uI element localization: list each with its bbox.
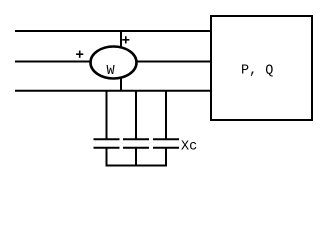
capacitor C3 [153,91,179,166]
svg-text:W: W [107,64,116,79]
wire line C (bottom phase) [15,90,211,92]
capacitor C1 [94,91,120,166]
bus wire joining capacitor bottoms [106,165,168,167]
capacitor C2 [123,91,149,166]
load box P,Q [211,16,312,120]
wattmeter W (ellipse) [91,47,137,79]
wire tap from line A to wattmeter voltage terminal [120,31,122,48]
polarity mark + (left, on line B) [76,51,83,58]
wire line A (top phase) [15,30,211,32]
svg-text:P, Q: P, Q [241,64,273,79]
svg-text:Xc: Xc [181,139,197,154]
wire line B (middle phase) [15,61,211,63]
polarity mark + (top, on voltage tap) [122,36,129,43]
wire from wattmeter bottom to line C [120,78,122,91]
